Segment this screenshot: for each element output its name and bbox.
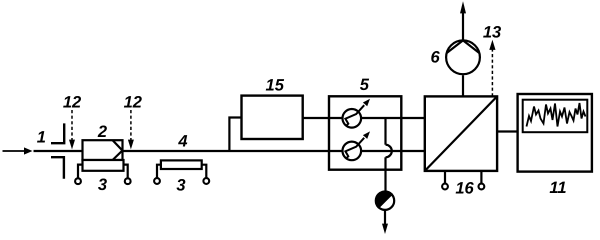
cooler circle upper	[343, 99, 371, 128]
analyzer box with diagonal	[425, 96, 497, 170]
svg-text:2: 2	[97, 123, 107, 141]
inlet flow arrow	[3, 147, 33, 154]
recorder 11 display box	[523, 100, 588, 133]
svg-text:4: 4	[177, 132, 187, 150]
recorder 11 outer box	[518, 94, 592, 172]
exhaust arrow up from pump 6	[460, 1, 466, 40]
pump 6	[446, 40, 480, 74]
filter F2 box	[83, 140, 123, 160]
wire analyzer to recorder 11	[497, 130, 517, 132]
svg-text:13: 13	[483, 23, 501, 41]
svg-text:3: 3	[176, 177, 185, 195]
svg-text:15: 15	[266, 76, 285, 94]
dashed signal arrow 13	[489, 40, 495, 97]
calibration gas dashed arrow 12b	[128, 110, 134, 149]
recorder 11 signal trace	[527, 103, 586, 127]
svg-text:16: 16	[455, 179, 474, 197]
svg-text:12: 12	[124, 94, 142, 112]
svg-text:11: 11	[549, 179, 566, 197]
wire condensate drain with hop over sample line	[386, 118, 392, 191]
wire main sample line	[34, 150, 426, 152]
analyzer power terminal left 16	[442, 171, 448, 190]
probe 1 duct wall bracket top	[51, 123, 64, 143]
svg-text:6: 6	[431, 49, 441, 67]
svg-text:5: 5	[360, 76, 370, 94]
heated line heater left terminal	[154, 165, 161, 184]
condensate pump (half-filled circle)	[376, 192, 394, 210]
heater box 3 under filter	[83, 160, 124, 171]
condensate outlet arrow down	[382, 210, 388, 234]
heated line heater right terminal	[202, 165, 210, 184]
heater 3 left terminal	[75, 165, 82, 185]
filter F2 chevron	[113, 140, 123, 160]
calibration gas dashed arrow 12a	[69, 110, 75, 149]
svg-text:12: 12	[63, 94, 81, 112]
wire bypass riser to box 15	[229, 118, 241, 152]
svg-text:1: 1	[37, 129, 46, 147]
probe 1 duct wall bracket bottom	[51, 157, 64, 179]
wire box15 to cooler upper port	[304, 117, 426, 119]
svg-text:3: 3	[98, 176, 107, 194]
wire analyzer to pump 6	[462, 75, 464, 96]
cooler circle lower	[343, 131, 371, 160]
heater 3 right terminal	[124, 165, 131, 185]
heated line heater 4/3 box	[161, 160, 202, 169]
analyzer power terminal right 16	[479, 171, 485, 190]
conditioning unit 5 box	[329, 96, 401, 169]
box 15	[242, 96, 303, 139]
